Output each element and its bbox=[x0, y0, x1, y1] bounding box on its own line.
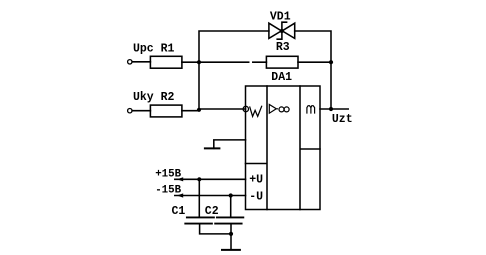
svg-text:+U: +U bbox=[249, 174, 263, 187]
svg-text:C1: C1 bbox=[172, 205, 186, 218]
svg-text:Uky R2: Uky R2 bbox=[133, 91, 175, 104]
svg-text:+15B: +15B bbox=[155, 168, 181, 180]
svg-text:-15B: -15B bbox=[155, 185, 181, 197]
svg-text:R3: R3 bbox=[276, 41, 290, 54]
svg-text:-U: -U bbox=[249, 190, 263, 203]
svg-text:Uzt: Uzt bbox=[332, 113, 353, 126]
svg-text:Upc R1: Upc R1 bbox=[133, 42, 175, 55]
svg-text:VD1: VD1 bbox=[270, 10, 291, 23]
svg-text:DA1: DA1 bbox=[271, 71, 292, 84]
svg-text:C2: C2 bbox=[205, 205, 219, 218]
